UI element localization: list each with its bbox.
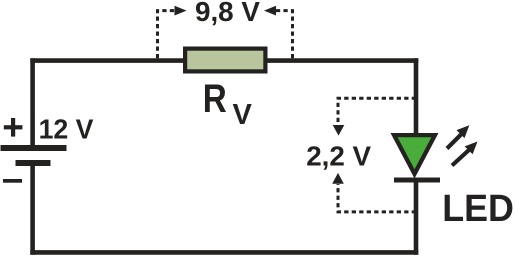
measurement 2,2 V down arrowhead xyxy=(333,125,345,136)
svg-text:2,2 V: 2,2 V xyxy=(306,141,371,172)
measurement 2,2 V up arrowhead xyxy=(332,173,344,184)
battery minus symbol xyxy=(3,179,22,183)
battery negative plate xyxy=(16,160,51,166)
wire right upper segment xyxy=(414,58,419,140)
measurement 9,8 V left arrowhead (pointing left) xyxy=(264,6,276,16)
wire left lower segment xyxy=(30,165,35,255)
wire right lower segment xyxy=(414,178,419,255)
measurement 9,8 V left dashed line xyxy=(158,11,176,59)
measurement 9,8 V right dashed line xyxy=(276,11,293,59)
svg-text:12 V: 12 V xyxy=(39,113,94,144)
LED light emission arrow 2 xyxy=(452,142,478,166)
resistor RV xyxy=(185,49,265,72)
measurement 9,8 V right arrowhead (pointing right) xyxy=(175,6,187,16)
LED D1 triangle green fill xyxy=(398,137,432,169)
svg-text:V: V xyxy=(233,99,253,131)
LED D1 cathode bar xyxy=(394,178,440,183)
wire top-right segment xyxy=(262,58,418,63)
wire left upper segment xyxy=(30,58,35,146)
battery positive plate xyxy=(1,145,67,151)
LED light emission arrow 1 xyxy=(447,125,469,148)
measurement 2,2 V bottom dashed line xyxy=(338,184,416,212)
battery plus symbol xyxy=(4,118,23,137)
svg-text:R: R xyxy=(203,76,227,121)
wire top-left segment xyxy=(30,58,190,63)
wire bottom segment xyxy=(30,250,418,255)
measurement 2,2 V top dashed line xyxy=(338,98,416,125)
svg-text:9,8 V: 9,8 V xyxy=(195,0,260,27)
LED D1 triangle (anode) outline xyxy=(391,133,439,179)
svg-text:LED: LED xyxy=(442,188,514,230)
